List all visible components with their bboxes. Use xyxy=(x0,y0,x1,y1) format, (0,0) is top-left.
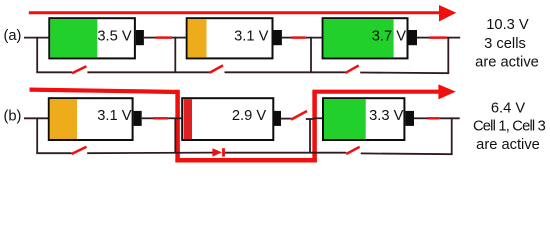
svg-text:3.1 V: 3.1 V xyxy=(234,29,268,45)
battery cell 2 (row b) box xyxy=(182,98,273,140)
svg-text:3.1 V: 3.1 V xyxy=(97,108,131,124)
bypass switch 3a open (red lever) xyxy=(346,65,359,73)
terminal cell 1 (row b) xyxy=(134,111,142,126)
charge level cell 3 row b (green) xyxy=(324,99,366,139)
bypass switch 2a open (red lever) xyxy=(209,65,223,73)
wire: bypass rail row a segment 2 xyxy=(87,71,209,73)
wire: bypass rail row b segment 4 xyxy=(361,152,453,155)
bypass switch 1a open (red lever) xyxy=(72,66,86,73)
wire: junction drop between cell2 and cell3 xyxy=(310,37,312,73)
wire: switch to cell 3 xyxy=(306,37,323,39)
bypass switch 3b open (red lever) xyxy=(346,147,360,154)
wire: junction to cell 3 row b xyxy=(314,117,323,119)
wire: cell2b to open switch xyxy=(281,118,292,120)
svg-text:are active: are active xyxy=(475,55,539,71)
diode D2 (red) in bypass of cell 2 xyxy=(212,148,225,156)
svg-text:2.9 V: 2.9 V xyxy=(232,108,266,124)
wire: cell1 to switch xyxy=(144,37,157,39)
wire: bypass rail row b segment 2 xyxy=(87,152,212,155)
wire: row b left lead xyxy=(24,117,49,119)
svg-text:3.7 V: 3.7 V xyxy=(372,29,406,45)
wire: junction drop between cell1 and cell2 xyxy=(174,37,176,73)
wire: junction drop between cell1b and cell2b xyxy=(174,118,176,153)
battery cell 1 (row b) box xyxy=(49,98,133,140)
svg-text:Cell 1, Cell 3: Cell 1, Cell 3 xyxy=(473,119,546,135)
wire: bypass rail row a segment 3 xyxy=(225,71,346,73)
low charge bar cell 2 row b (red) xyxy=(184,99,192,139)
totals text row b xyxy=(473,100,546,152)
wire: cell1b to switch xyxy=(142,117,154,119)
wire: row a left lead xyxy=(24,37,49,39)
wire: bypass rail row b segment 1 xyxy=(36,152,71,154)
wire: cell3b to switch xyxy=(414,117,428,119)
wire: junction drop between cell2b and cell3b xyxy=(309,118,311,153)
switch S2a closed (red segment) xyxy=(292,36,306,39)
wire: cell2 to switch xyxy=(282,37,292,39)
charge level cell 1 row b (orange) xyxy=(50,99,77,139)
svg-text:3.5 V: 3.5 V xyxy=(97,29,131,45)
terminal cell 3 (row b) xyxy=(405,111,414,126)
battery cell 3 (row a) box xyxy=(323,18,408,58)
wire: bypass rail row a segment 4 xyxy=(360,72,449,75)
switch S3a closed (red segment) xyxy=(429,36,447,39)
totals text row a xyxy=(475,17,539,71)
wire: output stub row b xyxy=(439,117,460,119)
battery cell 2 (row a) box xyxy=(187,18,273,58)
charge level cell 3 (green) xyxy=(324,19,394,57)
wire: bypass drop left of cell 1 xyxy=(36,37,38,73)
switch S1a closed (red segment) xyxy=(156,36,172,39)
wire: bypass drop left of cell 1 row b xyxy=(36,118,38,154)
current flow arrow row (a) xyxy=(29,5,457,22)
wire: switch to cell 2 row b xyxy=(168,117,182,119)
charge level cell 1 (green) xyxy=(50,19,97,57)
current flow path row (b) thick red xyxy=(30,84,456,162)
switch S1b closed (red segment) xyxy=(153,117,168,120)
wire: cell3 to switch xyxy=(417,37,430,39)
wire: bypass rail row b segment 3 xyxy=(225,152,346,154)
wire: switch to cell 2 xyxy=(172,37,187,39)
battery cell 1 (row a) box xyxy=(49,18,135,58)
wire: right drop row b xyxy=(451,118,453,155)
svg-text:are active: are active xyxy=(476,137,540,153)
terminal cell 2 (row b) xyxy=(273,111,281,126)
wire: right drop row a xyxy=(447,37,449,74)
terminal cell 3 (row a) xyxy=(409,30,418,45)
wire: bypass rail row a segment 1 xyxy=(36,71,72,73)
switch S2b OPEN (red lever) xyxy=(291,111,307,120)
terminal cell 2 (row a) xyxy=(274,30,282,45)
battery cell 3 (row b) box xyxy=(323,98,404,140)
wire stub after open switch xyxy=(306,118,314,120)
terminal cell 1 (row a) xyxy=(136,30,144,45)
svg-text:10.3 V: 10.3 V xyxy=(486,17,529,33)
svg-text:6.4 V: 6.4 V xyxy=(491,100,525,116)
svg-text:3.3 V: 3.3 V xyxy=(369,108,403,124)
svg-text:(b): (b) xyxy=(4,109,22,125)
bypass switch 1b open (red lever) xyxy=(72,147,87,154)
switch S3b closed (red segment) xyxy=(427,117,439,120)
charge level cell 2 (orange) xyxy=(188,19,207,57)
wire: output stub row a xyxy=(447,37,461,39)
svg-text:3 cells: 3 cells xyxy=(484,36,526,52)
svg-text:(a): (a) xyxy=(4,28,22,44)
